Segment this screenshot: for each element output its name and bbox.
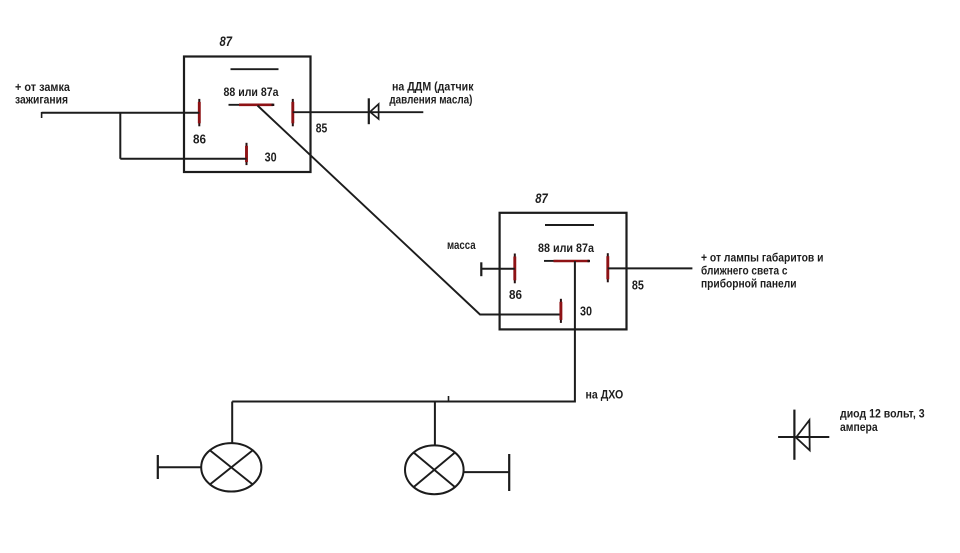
wire pin 85 to DDM bbox=[293, 111, 424, 113]
svg-text:85: 85 bbox=[632, 278, 644, 293]
lamp EL1 cross bbox=[210, 450, 253, 484]
wire branch vertical to pin 30 bbox=[119, 113, 121, 159]
svg-text:диод 12 вольт, 3: диод 12 вольт, 3 bbox=[840, 409, 925, 421]
svg-text:88 или 87а: 88 или 87а bbox=[224, 87, 280, 99]
relay K2 pin 88/87a contact line (red) bbox=[554, 260, 591, 263]
diode VD1 triangle bbox=[370, 104, 379, 119]
wire K2 pin 85 to lamps feed bbox=[608, 267, 693, 269]
svg-text:ближнего света с: ближнего света с bbox=[701, 266, 788, 278]
svg-text:ампера: ампера bbox=[840, 422, 878, 434]
diode VD1 cathode bar bbox=[368, 98, 370, 124]
lamp EL2 cross bbox=[414, 453, 455, 488]
relay K1 pin 88/87a contact line (red) bbox=[239, 104, 274, 107]
lamp EL1 bbox=[201, 443, 261, 491]
svg-text:+ от замка: + от замка bbox=[15, 82, 71, 94]
svg-text:зажигания: зажигания bbox=[15, 94, 68, 106]
relay K1 pin 30 tick bbox=[246, 143, 248, 165]
svg-text:88 или 87а: 88 или 87а bbox=[538, 243, 595, 255]
svg-text:85: 85 bbox=[316, 122, 328, 136]
relay K2 pin 86 tick bbox=[514, 254, 516, 284]
wire масса to K2 pin 86 bbox=[481, 268, 515, 270]
lamp EL2 bbox=[405, 445, 464, 494]
relay K1 box bbox=[184, 57, 311, 173]
svg-text:масса: масса bbox=[447, 240, 476, 252]
lamp EL1 lead wire bbox=[158, 466, 201, 468]
wire start serif bbox=[41, 112, 43, 118]
ground terminal bar (масса) bbox=[480, 262, 482, 276]
wire from ignition to pin 86 bbox=[42, 112, 200, 114]
svg-text:давления масла): давления масла) bbox=[389, 94, 472, 106]
svg-text:86: 86 bbox=[509, 287, 522, 302]
diode VD2 wire bbox=[778, 436, 829, 438]
wire diagonal from K1 pin 88 to K2 pin 30 bbox=[258, 106, 561, 315]
relay K2 box bbox=[500, 213, 627, 330]
svg-text:на ДДМ (датчик: на ДДМ (датчик bbox=[392, 82, 474, 94]
svg-text:30: 30 bbox=[580, 304, 592, 319]
svg-text:87: 87 bbox=[220, 33, 233, 49]
svg-text:87: 87 bbox=[535, 190, 548, 206]
lamp EL2 terminal bar bbox=[508, 454, 510, 491]
svg-text:86: 86 bbox=[193, 132, 206, 147]
wire K2 pin 88 down to DRL bus bbox=[232, 261, 575, 402]
lamp EL1 terminal bar bbox=[157, 455, 159, 479]
junction serif on bus bbox=[448, 396, 450, 402]
svg-text:на ДХО: на ДХО bbox=[586, 390, 624, 402]
relay K1 pin 88/87a contact line (black) bbox=[229, 104, 259, 106]
wire branch horizontal to pin 30 bbox=[120, 158, 246, 160]
relay K2 pin 85 tick bbox=[607, 253, 609, 282]
wire drop to lamp EL1 bbox=[231, 402, 233, 444]
relay K2 pin 30 tick bbox=[560, 299, 562, 323]
svg-text:+ от лампы габаритов и: + от лампы габаритов и bbox=[701, 252, 824, 264]
lamp EL2 lead wire bbox=[464, 471, 510, 473]
svg-text:приборной панели: приборной панели bbox=[701, 278, 797, 290]
diode VD2 cathode bar bbox=[793, 410, 795, 460]
relay K1 pin 85 tick bbox=[292, 99, 294, 126]
wire drop to lamp EL2 bbox=[434, 402, 436, 446]
relay K2 coil bar (pin 87 contact line) bbox=[545, 224, 594, 226]
svg-text:30: 30 bbox=[265, 150, 277, 165]
relay K2 pin 88/87a contact line (black) bbox=[544, 260, 558, 262]
relay K1 coil bar (pin 87 contact line) bbox=[231, 68, 279, 70]
relay K1 pin 86 tick bbox=[198, 99, 200, 126]
diode VD2 triangle bbox=[796, 420, 810, 450]
